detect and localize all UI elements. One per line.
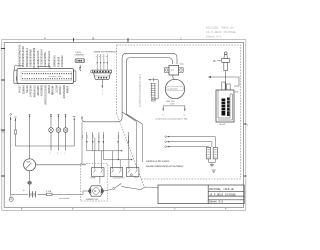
svg-text:Sheet 5/1: Sheet 5/1	[209, 200, 223, 204]
svg-text:machine in this section: machine in this section	[146, 160, 170, 163]
svg-text:S8H6G: S8H6G	[26, 85, 29, 93]
svg-text:A: A	[44, 36, 46, 40]
svg-text:13.5.0E13 13/E5dE: 13.5.0E13 13/E5dE	[209, 192, 236, 196]
svg-text:WIRES FOR REFERENCE: WIRES FOR REFERENCE	[94, 51, 118, 53]
svg-text:MM9E6M: MM9E6M	[52, 85, 55, 95]
svg-text:x: x	[50, 153, 51, 155]
svg-text:NK55MKM: NK55MKM	[41, 85, 44, 96]
svg-text:LNNDERD: LNNDERD	[75, 54, 85, 56]
svg-text:2G8MKR: 2G8MKR	[22, 85, 25, 95]
svg-text:S: S	[2, 130, 4, 134]
svg-text:CUSTOM RLY: CUSTOM RLY	[113, 177, 126, 179]
svg-text:wire identifier: wire identifier	[59, 197, 70, 200]
svg-text:M: M	[94, 190, 96, 193]
svg-text:z: z	[64, 153, 65, 155]
svg-text:an electrical circuit board (s: an electrical circuit board (see 1 No)	[155, 117, 187, 120]
svg-text:DINAMOTOR: DINAMOTOR	[86, 198, 99, 201]
svg-text:9HKBD: 9HKBD	[19, 85, 22, 93]
svg-text:HM62GMB: HM62GMB	[37, 85, 40, 96]
svg-text:Sheet 5/1: Sheet 5/1	[206, 35, 222, 39]
svg-text:relay: relay	[180, 62, 184, 65]
svg-text:CONTI: CONTI	[170, 103, 176, 105]
svg-text:WMKKR5EBHN2: WMKKR5EBHN2	[48, 50, 51, 67]
svg-text:M8B5M29NMH9M8: M8B5M29NMH9M8	[33, 47, 36, 67]
svg-text:DD8K6GB: DD8K6GB	[57, 56, 60, 67]
svg-text:a: a	[96, 56, 97, 58]
svg-text:M60B962S: M60B962S	[33, 85, 36, 98]
svg-text:t1: t1	[162, 113, 163, 116]
svg-text:D0MN0RH5: D0MN0RH5	[54, 55, 57, 68]
svg-text:E6G6R8BE: E6G6R8BE	[61, 55, 64, 68]
svg-text:08RR2SE2EBD0S: 08RR2SE2EBD0S	[44, 84, 47, 104]
svg-text:D22BM: D22BM	[55, 85, 58, 93]
svg-text:CFPB: CFPB	[90, 177, 96, 179]
svg-text:20EMEN: 20EMEN	[48, 84, 51, 94]
svg-text:b: b	[99, 56, 100, 58]
svg-text:operate independently on the b: operate independently on the battery	[146, 165, 184, 168]
svg-text:Hss: Hss	[134, 177, 137, 179]
svg-text:5ED5MDRDS9H9: 5ED5MDRDS9H9	[41, 49, 44, 68]
svg-text:WBSS8H: WBSS8H	[59, 85, 62, 95]
svg-text:MMk: MMk	[26, 162, 30, 164]
svg-text:OCC152E, rACK.dn: OCC152E, rACK.dn	[209, 187, 234, 191]
svg-text:6DzM: 6DzM	[220, 124, 226, 126]
svg-text:13.5.0E13 15/65dE: 13.5.0E13 15/65dE	[206, 30, 236, 34]
svg-text:B: B	[93, 36, 95, 40]
svg-text:SDG86BW5SMWEH6S: SDG86BW5SMWEH6S	[19, 44, 22, 67]
svg-text:F 10A: F 10A	[46, 190, 52, 193]
svg-text:GND15: GND15	[127, 134, 130, 141]
svg-text:N660ER85MHRK90: N660ER85MHRK90	[22, 46, 25, 68]
svg-text:RMMDR: RMMDR	[66, 85, 69, 93]
svg-text:6EEG8GERH06: 6EEG8GERH06	[37, 50, 40, 67]
svg-text:ac generator: ac generator	[168, 88, 178, 91]
svg-text:SCC152E A80: SCC152E A80	[49, 75, 62, 78]
svg-text:B-: B-	[214, 59, 217, 63]
svg-text:8RD0S890R: 8RD0S890R	[63, 84, 66, 98]
svg-text:t2: t2	[184, 113, 185, 116]
svg-text:SCC152E, PACK.dn: SCC152E, PACK.dn	[206, 26, 234, 30]
svg-text:2DREG586: 2DREG586	[30, 85, 33, 98]
svg-text:28B0NRBR99WB: 28B0NRBR99WB	[30, 49, 33, 68]
svg-text:C: C	[180, 36, 182, 40]
svg-text:d: d	[106, 56, 107, 58]
svg-text:BHWBNR90SG: BHWBNR90SG	[44, 52, 47, 68]
svg-text:an electrical circuit board (s: an electrical circuit board (see 1 No.)	[139, 74, 142, 107]
svg-text:NMG9HGWE9BNEH: NMG9HGWE9BNEH	[26, 47, 29, 67]
svg-text:y: y	[57, 153, 58, 155]
